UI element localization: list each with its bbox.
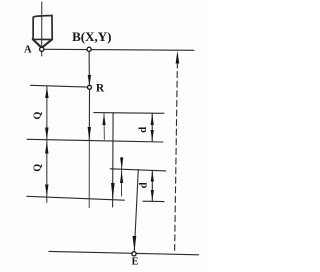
svg-text:d: d	[137, 182, 149, 188]
svg-text:R: R	[96, 83, 105, 95]
svg-text:d: d	[137, 127, 149, 133]
svg-text:E: E	[132, 256, 139, 267]
svg-text:B(X,Y): B(X,Y)	[72, 29, 111, 44]
svg-text:Q: Q	[32, 164, 43, 172]
svg-text:Q: Q	[33, 111, 44, 119]
svg-text:A: A	[24, 44, 32, 55]
